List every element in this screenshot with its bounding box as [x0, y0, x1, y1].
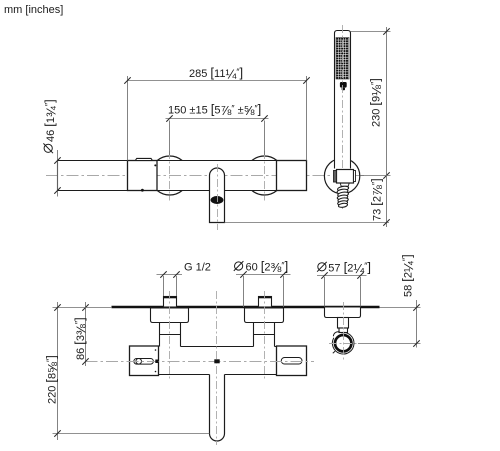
wall line plan view: [112, 306, 380, 308]
valve dome right front view: [252, 156, 277, 195]
centerline holder plan vertical: [343, 302, 345, 361]
dimension diameter 57: [317, 276, 367, 307]
ring notch: [333, 351, 335, 353]
svg-text:60 [2⅜″]: 60 [2⅜″]: [246, 259, 289, 276]
body cylinder front view: [157, 161, 307, 191]
handle marker bottom: [141, 189, 144, 192]
svg-text:230 [9⅛″]: 230 [9⅛″]: [368, 78, 385, 127]
escutcheon left plan: [151, 308, 189, 323]
holder bracket left: [334, 171, 337, 183]
supply nipple left: [164, 297, 177, 308]
valve neck right plan: [254, 323, 275, 347]
dimension 73: [225, 176, 391, 228]
handle marker dot top: [154, 164, 156, 166]
valve centerline left front: [169, 151, 171, 201]
hose connector: [340, 183, 349, 186]
handle right slot: [281, 358, 302, 365]
svg-text:G 1/2: G 1/2: [184, 262, 211, 274]
dimension 58: [358, 300, 421, 348]
dimension 220: [53, 302, 210, 440]
centerline holder plan horizontal: [329, 343, 358, 345]
svg-text:73 [2⅞″]: 73 [2⅞″]: [369, 178, 386, 221]
svg-text:285 [11¼″]: 285 [11¼″]: [189, 65, 243, 82]
valve centerline right front: [264, 151, 266, 201]
body plan view: [159, 347, 277, 375]
wand knob: [340, 82, 347, 88]
centerline main axis front view: [46, 175, 364, 177]
diameter symbol 57: [317, 262, 327, 272]
centerline body plan: [86, 361, 315, 363]
body pipe left section front view: [58, 161, 128, 191]
svg-text:150 ±15 [5⅞″ ±⅝″]: 150 ±15 [5⅞″ ±⅝″]: [168, 102, 261, 119]
holder ring plan outer: [332, 332, 354, 354]
spout centerline front: [217, 164, 219, 230]
svg-text:58 [2¼″]: 58 [2¼″]: [399, 254, 416, 297]
valve neck left plan: [160, 323, 181, 347]
holder step right: [354, 171, 356, 182]
centerline valve left plan: [169, 291, 171, 381]
holder escutcheon plan: [325, 307, 361, 318]
wand grip knurling: [336, 38, 349, 80]
dimension 86: [85, 302, 87, 366]
diameter symbol 46: [43, 143, 53, 153]
handle left plan: [130, 346, 159, 376]
handle pin bottom: [155, 371, 157, 373]
dimension G 1/2: [157, 275, 183, 297]
dimension 150: [166, 119, 269, 156]
handle ridge: [135, 158, 152, 160]
centerline spout plan: [216, 291, 218, 445]
spout front view: [210, 168, 225, 222]
hand shower wand: [335, 31, 351, 169]
handle left marker: [155, 360, 158, 364]
valve dome left front view: [157, 156, 182, 195]
centerline valve right plan: [264, 291, 266, 381]
holder block front view: [337, 170, 354, 184]
escutcheon right plan: [245, 308, 284, 323]
wand centerline: [342, 25, 344, 209]
svg-text:mm [inches]: mm [inches]: [4, 4, 63, 16]
handle right front view: [277, 161, 307, 191]
svg-text:46 [1¾″]: 46 [1¾″]: [42, 99, 59, 142]
supply nipple right: [259, 297, 272, 308]
handle right plan: [277, 346, 307, 376]
svg-text:220 [8⅝″]: 220 [8⅝″]: [43, 355, 60, 404]
holder circle front view: [324, 158, 359, 193]
dimension diameter 46: [57, 150, 59, 197]
body center marker: [214, 359, 219, 363]
handle pin top: [155, 349, 157, 351]
spout aerator ellipse: [211, 196, 224, 204]
handle left slot: [134, 359, 154, 365]
ring hook: [333, 332, 340, 337]
svg-text:57 [2¼″]: 57 [2¼″]: [328, 259, 371, 276]
handle left front view: [128, 161, 158, 191]
spout plan view: [210, 375, 225, 442]
holder ring plan inner: [335, 335, 351, 351]
dimension 230: [351, 27, 391, 176]
diameter symbol 60: [234, 261, 244, 271]
holder stem plan: [338, 318, 349, 329]
dimension 285: [128, 76, 307, 161]
dimension diameter 60: [236, 275, 291, 308]
hose coil: [337, 186, 349, 208]
